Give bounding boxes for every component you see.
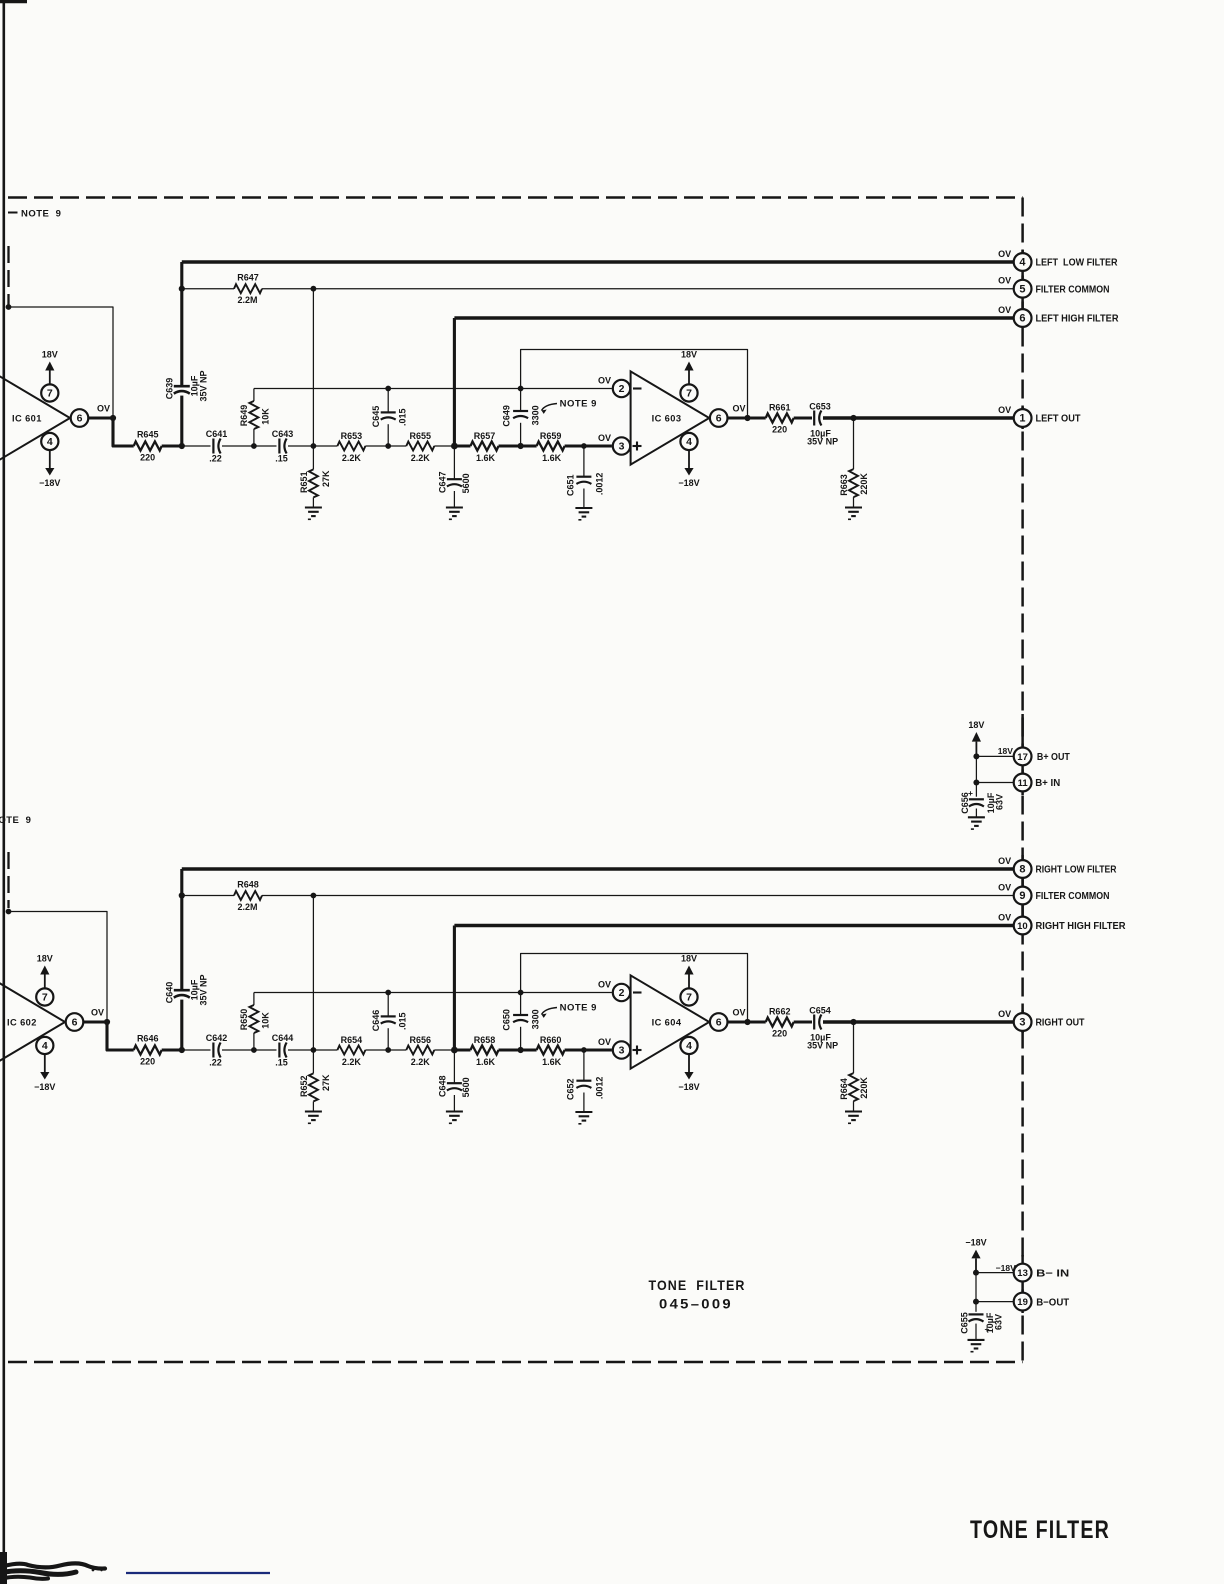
IC 604 pin 4 (-18V supply) [680, 1037, 697, 1054]
svg-text:2.2M: 2.2M [237, 295, 257, 305]
node: first filter junction [179, 1047, 185, 1053]
capacitor C642 .22 [212, 1043, 214, 1058]
IC 604 pin 7 (+18V supply) [680, 988, 697, 1005]
svg-text:B− IN: B− IN [1036, 1268, 1069, 1279]
svg-text:4: 4 [47, 436, 53, 448]
node: R663 junction [850, 415, 856, 421]
wire: R646 to C-node [162, 1048, 182, 1051]
wire: LEFT HIGH FILTER line [454, 316, 1013, 320]
svg-text:C651: C651 [566, 474, 576, 496]
wire: RIGHT LOW FILTER line [182, 867, 1014, 871]
svg-text:6: 6 [77, 413, 83, 425]
node: C640 / R648 junction [179, 892, 185, 898]
dashed module border bottom [8, 1361, 1023, 1364]
resistor R661 220 [766, 414, 794, 423]
IC 601 18V supply arrow [49, 371, 51, 385]
svg-text:RIGHT HIGH FILTER: RIGHT HIGH FILTER [1036, 921, 1127, 932]
resistor R662 220 [766, 1018, 794, 1027]
resistor R649 10K [253, 389, 255, 402]
node: R651 junction [311, 443, 317, 449]
node: B- in junction [973, 1270, 979, 1276]
wire: IC 604 output to R662 [728, 1020, 766, 1023]
capacitor C656 10uF 63V (B+ bypass) [975, 783, 977, 797]
capacitor C648 5600 (to ground) [453, 1050, 455, 1083]
wire: to B+ IN pin [976, 782, 1013, 784]
node: R650 bottom junction [251, 1047, 257, 1053]
svg-text:−18V: −18V [678, 1082, 699, 1092]
B+ 18V supply arrow [975, 742, 977, 757]
svg-text:NOTE 9: NOTE 9 [0, 815, 31, 826]
svg-text:5600: 5600 [461, 1077, 471, 1097]
resistor R652 27K (to ground) [312, 1050, 314, 1073]
node: feedback junction on output [744, 1019, 750, 1025]
svg-text:C652: C652 [566, 1078, 576, 1100]
IC 603 plus sign [633, 445, 642, 447]
svg-text:OV: OV [598, 980, 611, 990]
node: feedback junction on output [744, 415, 750, 421]
wire: to B+ OUT pin [976, 755, 1013, 757]
ground below C647 [446, 506, 463, 508]
svg-text:27K: 27K [321, 470, 331, 487]
svg-text:.0012: .0012 [594, 473, 604, 496]
svg-text:C653: C653 [809, 402, 831, 412]
IC 603 pin 6 output [710, 409, 728, 427]
svg-text:10: 10 [1017, 921, 1028, 932]
svg-text:OV: OV [998, 276, 1011, 286]
svg-text:18V: 18V [968, 720, 984, 730]
svg-text:7: 7 [686, 388, 692, 400]
svg-text:.22: .22 [209, 1058, 222, 1068]
wire: IC 604 pin 2 line [254, 992, 612, 994]
op-amp IC 604 [631, 975, 710, 1068]
dashed module border top [8, 196, 1023, 199]
svg-text:6: 6 [72, 1017, 78, 1029]
ground below C655 [968, 1339, 985, 1341]
svg-text:R659: R659 [540, 431, 562, 441]
ground below R652 [305, 1110, 322, 1112]
capacitor C649 3300 (NOTE 9) [518, 386, 524, 392]
wire: filter ladder [182, 445, 211, 447]
resistor R663 220K (to ground) [853, 418, 855, 469]
wire: common junction down to R652 node [312, 896, 314, 1051]
svg-text:.0012: .0012 [594, 1077, 604, 1100]
svg-text:R655: R655 [410, 431, 432, 441]
svg-text:3300: 3300 [530, 1009, 540, 1029]
svg-text:R664: R664 [839, 1078, 849, 1100]
NOTE 9 pointer [542, 404, 558, 411]
svg-text:2.2K: 2.2K [411, 453, 431, 463]
svg-text:2.2K: 2.2K [342, 1057, 362, 1067]
IC 604 18V supply arrow [688, 975, 690, 989]
resistor R653 2.2K [337, 442, 365, 451]
svg-text:.15: .15 [275, 454, 288, 464]
resistor R647 2.2M [182, 288, 234, 290]
svg-text:LEFT OUT: LEFT OUT [1036, 414, 1082, 425]
svg-text:18V: 18V [681, 350, 697, 360]
node: IC 601 output junction [110, 415, 116, 421]
capacitor C654 10uF 35V NP [813, 1015, 815, 1030]
IC 601 pin 4 (-18V supply) [41, 433, 58, 450]
svg-text:R650: R650 [239, 1009, 249, 1031]
svg-text:OV: OV [998, 882, 1011, 892]
dashed module border right [1021, 198, 1024, 1363]
wire: IC 602 output to R646 [83, 1022, 133, 1050]
IC 604 plus sign [633, 1049, 642, 1051]
resistor R645 220 [134, 442, 162, 451]
IC 604 pin 3 (non-inverting input) [613, 1041, 630, 1058]
svg-text:8: 8 [1019, 864, 1025, 876]
svg-text:045–009: 045–009 [659, 1296, 733, 1312]
svg-text:OV: OV [598, 376, 611, 386]
svg-text:1.6K: 1.6K [476, 453, 496, 463]
node: C639 / R647 junction [179, 286, 185, 292]
IC 604 -18V supply arrow [688, 1054, 690, 1072]
svg-text:27K: 27K [321, 1074, 331, 1091]
svg-text:17: 17 [1017, 752, 1028, 763]
capacitor C639 10uF 35V NP [180, 262, 183, 386]
svg-text:C655: C655 [960, 1312, 970, 1334]
wire: filter common line [262, 895, 1014, 897]
node: B+ in junction [973, 780, 979, 786]
IC 603 -18V supply arrow [688, 450, 690, 468]
svg-text:2: 2 [619, 383, 625, 395]
svg-text:C640: C640 [165, 982, 175, 1004]
svg-text:−18V: −18V [678, 478, 699, 488]
capacitor C647 5600 (to ground) [453, 446, 455, 479]
connector pin 9 FILTER COMMON [1014, 887, 1032, 905]
IC 601 -18V supply arrow [49, 450, 51, 468]
resistor R654 2.2K [337, 1046, 365, 1055]
wire: RIGHT HIGH FILTER line [454, 924, 1013, 928]
ground below R664 [845, 1110, 862, 1112]
svg-text:5: 5 [1019, 283, 1025, 295]
op-amp IC 601 [0, 371, 70, 464]
connector pin 13 B- IN [1014, 1264, 1032, 1282]
svg-text:18V: 18V [42, 350, 58, 360]
svg-text:220K: 220K [859, 1077, 869, 1099]
svg-text:NOTE 9: NOTE 9 [21, 209, 61, 220]
svg-text:R658: R658 [474, 1035, 496, 1045]
ground below C652 [575, 1111, 592, 1113]
svg-text:C644: C644 [272, 1033, 294, 1043]
wire: C654 to connector [823, 1020, 1014, 1024]
wire: filter ladder [182, 1049, 211, 1051]
IC 604 pin 2 (inverting input) [613, 984, 630, 1001]
capacitor C641 .22 [212, 439, 214, 454]
svg-text:IC 603: IC 603 [652, 413, 682, 423]
svg-text:.22: .22 [209, 454, 222, 464]
svg-text:C646: C646 [371, 1010, 381, 1032]
connector pin 8 RIGHT LOW FILTER [1014, 860, 1032, 878]
wire: border tap to IC 602 output node [6, 909, 12, 915]
svg-text:C645: C645 [371, 406, 381, 428]
IC 602 pin 7 (+18V supply) [36, 988, 53, 1005]
svg-text:220: 220 [140, 453, 155, 463]
node: first filter junction [179, 443, 185, 449]
capacitor C651 .0012 (to ground) [581, 443, 587, 449]
wire: LEFT LOW FILTER line [182, 260, 1014, 264]
IC 603 minus sign [633, 387, 642, 389]
svg-text:R645: R645 [137, 430, 159, 440]
svg-text:OV: OV [598, 433, 611, 443]
svg-text:R646: R646 [137, 1034, 159, 1044]
IC 603 pin 7 (+18V supply) [680, 384, 697, 401]
capacitor C644 .15 [278, 1043, 280, 1058]
svg-text:R652: R652 [299, 1076, 309, 1098]
svg-text:220: 220 [772, 1029, 787, 1039]
svg-text:IC 604: IC 604 [652, 1017, 682, 1027]
svg-text:1.6K: 1.6K [542, 1057, 562, 1067]
svg-text:3: 3 [619, 441, 625, 453]
node: R649 bottom junction [251, 443, 257, 449]
svg-text:220: 220 [772, 425, 787, 435]
svg-text:RIGHT LOW FILTER: RIGHT LOW FILTER [1036, 865, 1118, 876]
wire: IC 603 pin 2 line [254, 388, 612, 390]
wire: IC 603 output to R661 [728, 416, 766, 419]
capacitor C640 10uF 35V NP [180, 869, 183, 990]
IC 603 pin 3 (non-inverting input) [613, 437, 630, 454]
svg-text:6: 6 [716, 413, 722, 425]
svg-text:2.2M: 2.2M [237, 902, 257, 912]
svg-text:4: 4 [1019, 257, 1026, 269]
svg-text:10K: 10K [260, 1012, 270, 1029]
wire: C653 to connector [823, 416, 1014, 420]
IC 604 minus sign [633, 991, 642, 993]
svg-text:C642: C642 [206, 1033, 228, 1043]
svg-text:1.6K: 1.6K [542, 453, 562, 463]
capacitor C653 10uF 35V NP [813, 411, 815, 426]
svg-text:TONE FILTER: TONE FILTER [970, 1516, 1110, 1544]
dashed module border left segments [7, 246, 9, 306]
node: R648 right junction [311, 893, 317, 899]
blue pen line [126, 1572, 270, 1574]
note 9 callout top-left [8, 212, 18, 214]
svg-text:2.2K: 2.2K [411, 1057, 431, 1067]
ground below R651 [305, 506, 322, 508]
resistor R651 27K (to ground) [312, 446, 314, 469]
resistor R656 2.2K [406, 1046, 434, 1055]
svg-text:OV: OV [732, 1008, 745, 1018]
svg-text:35V NP: 35V NP [199, 370, 209, 401]
svg-text:OV: OV [998, 405, 1011, 415]
IC 603 pin 4 (-18V supply) [680, 433, 697, 450]
svg-text:C649: C649 [502, 405, 512, 427]
svg-text:11: 11 [1018, 778, 1029, 789]
svg-text:18V: 18V [37, 954, 53, 964]
svg-text:B+ IN: B+ IN [1035, 778, 1060, 789]
resistor R655 2.2K [406, 442, 434, 451]
resistor R657 1.6K [454, 445, 470, 448]
svg-text:OV: OV [998, 305, 1011, 315]
IC 601 pin 7 (+18V supply) [41, 384, 58, 401]
svg-text:R656: R656 [410, 1035, 432, 1045]
svg-text:1: 1 [1019, 413, 1025, 425]
resistor R646 220 [134, 1046, 162, 1055]
svg-text:R654: R654 [341, 1035, 363, 1045]
B- -18V supply arrow [975, 1258, 977, 1272]
connector pin 4 LEFT&#160; LOW FILTER [1014, 253, 1032, 271]
svg-text:3: 3 [1019, 1017, 1025, 1029]
node: IC 602 output junction [104, 1019, 110, 1025]
svg-text:.015: .015 [398, 408, 408, 426]
svg-text:3300: 3300 [530, 405, 540, 425]
node: high filter junction [451, 443, 458, 450]
svg-text:C654: C654 [809, 1006, 831, 1016]
connector pin 11 B+ IN [1014, 774, 1032, 792]
wire: to B- IN pin [976, 1272, 1014, 1274]
svg-text:2.2K: 2.2K [342, 453, 362, 463]
svg-text:C643: C643 [272, 429, 294, 439]
svg-text:5600: 5600 [461, 473, 471, 493]
IC 603 18V supply arrow [688, 371, 690, 385]
svg-text:7: 7 [42, 992, 48, 1004]
node: high filter junction [451, 1047, 458, 1054]
svg-text:220: 220 [140, 1057, 155, 1067]
svg-text:R663: R663 [839, 474, 849, 496]
capacitor C652 .0012 (to ground) [581, 1047, 587, 1053]
connector pin 6 LEFT HIGH FILTER [1014, 309, 1032, 327]
page left edge line [2, 0, 5, 1584]
node: R664 junction [850, 1019, 856, 1025]
IC 602 pin 4 (-18V supply) [36, 1037, 53, 1054]
svg-text:OV: OV [732, 404, 745, 414]
svg-text:−18V: −18V [965, 1238, 986, 1248]
svg-text:R661: R661 [769, 403, 791, 413]
capacitor C645 .015 [385, 386, 391, 392]
svg-text:R647: R647 [237, 273, 259, 283]
wire: common junction down to R651 node [312, 289, 314, 446]
wire: to B- OUT pin [976, 1301, 1014, 1303]
svg-text:7: 7 [686, 992, 692, 1004]
svg-text:R649: R649 [239, 405, 249, 427]
svg-text:3: 3 [619, 1045, 625, 1057]
connector pin 10 RIGHT HIGH FILTER [1014, 917, 1032, 935]
svg-text:19: 19 [1017, 1297, 1028, 1308]
svg-text:R660: R660 [540, 1035, 562, 1045]
ground below C651 [575, 507, 592, 509]
svg-text:C641: C641 [206, 429, 228, 439]
connector pin 1 LEFT OUT [1014, 409, 1032, 427]
op-amp IC 603 [631, 371, 710, 464]
ink smudge bottom-left [0, 1552, 7, 1584]
capacitor C655 10uF 63V (B- bypass) [975, 1302, 977, 1312]
svg-text:RIGHT OUT: RIGHT OUT [1036, 1018, 1086, 1029]
svg-text:R648: R648 [237, 880, 259, 890]
connector pin 19 B- OUT [1014, 1293, 1032, 1311]
IC 602 -18V supply arrow [44, 1054, 46, 1072]
svg-text:OV: OV [998, 1009, 1011, 1019]
node: B- out junction [973, 1299, 979, 1305]
svg-text:4: 4 [686, 1040, 692, 1052]
svg-text:OV: OV [91, 1008, 104, 1018]
svg-text:35V NP: 35V NP [807, 1041, 838, 1051]
svg-text:OV: OV [998, 249, 1011, 259]
node: B+ out junction [973, 753, 979, 759]
svg-text:TONE FILTER: TONE FILTER [649, 1277, 746, 1293]
svg-text:OV: OV [97, 404, 110, 414]
NOTE 9 pointer [542, 1008, 558, 1015]
svg-text:NOTE 9: NOTE 9 [560, 399, 597, 410]
capacitor C643 .15 [278, 439, 280, 454]
svg-text:B−OUT: B−OUT [1036, 1297, 1070, 1308]
IC 604 pin 6 output [710, 1013, 728, 1031]
svg-text:B+ OUT: B+ OUT [1037, 752, 1071, 763]
wire: border tap to IC 601 output node [6, 304, 12, 310]
svg-text:4: 4 [42, 1040, 48, 1052]
svg-text:6: 6 [716, 1017, 722, 1029]
svg-text:R662: R662 [769, 1007, 791, 1017]
op-amp IC 602 [0, 975, 65, 1068]
svg-text:C639: C639 [165, 378, 175, 400]
wire: filter common line [262, 288, 1014, 290]
svg-text:35V NP: 35V NP [199, 974, 209, 1005]
svg-text:9: 9 [1019, 890, 1025, 902]
svg-text:C648: C648 [437, 1076, 447, 1098]
svg-text:−18V: −18V [39, 478, 60, 488]
wire: feedback loop to C649 [521, 350, 748, 419]
svg-text:IC 601: IC 601 [12, 413, 42, 423]
svg-text:R651: R651 [299, 472, 309, 494]
svg-text:63V: 63V [995, 794, 1005, 810]
svg-text:FILTER COMMON: FILTER COMMON [1036, 284, 1110, 295]
svg-text:4: 4 [686, 436, 692, 448]
svg-text:IC 602: IC 602 [7, 1017, 37, 1027]
svg-text:13: 13 [1017, 1268, 1028, 1279]
wire: feedback loop to C650 [521, 954, 748, 1023]
svg-text:OV: OV [598, 1037, 611, 1047]
svg-text:18V: 18V [681, 954, 697, 964]
svg-text:FILTER COMMON: FILTER COMMON [1036, 891, 1110, 902]
svg-text:C650: C650 [502, 1009, 512, 1031]
svg-text:.015: .015 [398, 1012, 408, 1030]
svg-text:OV: OV [998, 856, 1011, 866]
resistor R659 1.6K [537, 442, 565, 451]
node: R647 right junction [311, 286, 317, 292]
resistor R658 1.6K [454, 1049, 470, 1052]
svg-text:10K: 10K [260, 408, 270, 425]
svg-text:6: 6 [1019, 313, 1025, 325]
svg-text:.15: .15 [275, 1058, 288, 1068]
svg-text:−18V: −18V [34, 1082, 55, 1092]
svg-text:1.6K: 1.6K [476, 1057, 496, 1067]
capacitor C650 3300 (NOTE 9) [518, 990, 524, 996]
wire: R645 to C-node [162, 444, 182, 447]
node: R652 junction [311, 1047, 317, 1053]
capacitor C646 .015 [385, 990, 391, 996]
resistor R664 220K (to ground) [853, 1022, 855, 1073]
svg-text:LEFT LOW FILTER: LEFT LOW FILTER [1036, 258, 1119, 269]
svg-text:18V: 18V [998, 746, 1013, 756]
svg-text:LEFT HIGH FILTER: LEFT HIGH FILTER [1036, 314, 1120, 325]
svg-text:NOTE 9: NOTE 9 [560, 1003, 597, 1014]
svg-text:OV: OV [998, 912, 1011, 922]
IC 602 pin 6 output [66, 1013, 84, 1031]
ground below C656 [968, 816, 985, 818]
resistor R650 10K [253, 993, 255, 1006]
svg-text:2: 2 [619, 987, 625, 999]
ground below R663 [845, 506, 862, 508]
svg-text:7: 7 [47, 388, 53, 400]
svg-text:C647: C647 [437, 472, 447, 494]
svg-text:220K: 220K [859, 473, 869, 495]
svg-text:35V NP: 35V NP [807, 437, 838, 447]
IC 603 pin 2 (inverting input) [613, 380, 630, 397]
wire: IC 601 output to R645 [88, 418, 133, 446]
IC 601 pin 6 output [71, 409, 89, 427]
resistor R660 1.6K [537, 1046, 565, 1055]
svg-text:R657: R657 [474, 431, 496, 441]
ground below C648 [446, 1110, 463, 1112]
